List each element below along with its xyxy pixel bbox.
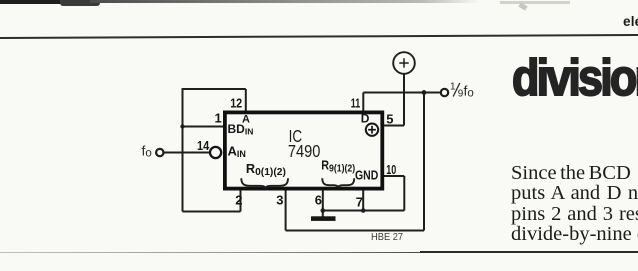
wire: f0 input line [164, 152, 210, 154]
svg-text:14: 14 [197, 138, 210, 153]
wire: right feedback vertical [423, 93, 425, 231]
bottom rule [0, 252, 638, 254]
wire: pin 3 stub [285, 190, 287, 231]
net label 1/9 f0 [450, 82, 474, 100]
svg-text:GND: GND [355, 167, 378, 182]
svg-text:3: 3 [276, 193, 283, 208]
junction node pin7 [361, 208, 366, 213]
svg-text:12: 12 [230, 95, 242, 110]
svg-text:2: 2 [235, 193, 242, 208]
wire: reset feedback bottom [286, 230, 424, 232]
wire: pin 7 stub [362, 190, 364, 211]
IC U1 7490 body [225, 112, 382, 188]
wire: QA feedback top rail [183, 88, 246, 90]
svg-text:fo: fo [464, 83, 474, 100]
elektor masthead fragment [623, 14, 638, 29]
svg-text:1: 1 [450, 82, 456, 93]
junction node output/reset [422, 90, 427, 95]
wire: pin 11 stub [362, 93, 364, 113]
svg-text:7: 7 [356, 195, 363, 210]
terminal 1/9 f0 output [441, 89, 448, 96]
body text column [511, 163, 638, 244]
wire: output rail [363, 92, 440, 94]
junction node pin1 [180, 124, 184, 128]
svg-text:5: 5 [386, 112, 393, 127]
junction node pin6 [321, 208, 326, 213]
wire: pin 10 vertical [403, 176, 405, 211]
svg-text:11: 11 [351, 95, 361, 110]
headline: division [512, 48, 638, 107]
wire: pin 2 loop bottom [183, 211, 241, 213]
wire: pin 12 stub [245, 89, 247, 112]
scan top edge bar [0, 0, 92, 4]
svg-text:HBE 27: HBE 27 [371, 232, 403, 243]
header rule [0, 34, 638, 39]
wire: pin 1 stub [183, 126, 224, 128]
wire: supply vertical [403, 74, 405, 126]
brace R9 pins 6-7 [322, 178, 354, 188]
wire: left feedback vertical [182, 88, 184, 211]
D output circle-plus U1 [366, 124, 378, 136]
wire: ground drop [322, 211, 324, 217]
brace R0 pins 2-3 [241, 178, 288, 188]
wire: pin 5 stub [384, 125, 404, 127]
svg-text:10: 10 [386, 162, 396, 177]
svg-text:D: D [361, 112, 370, 126]
svg-text:fo: fo [142, 143, 152, 160]
wire: ground rail pins 6-7 [323, 210, 405, 212]
wire: pin 10 stub [384, 175, 404, 177]
input bubble pin 14 [210, 147, 221, 158]
label IC 7490 [288, 126, 321, 161]
supply symbol + [393, 52, 415, 74]
wire: pin 2 stub [240, 190, 242, 212]
wire: pin 6 stub [322, 190, 324, 211]
ground symbol [311, 216, 336, 221]
terminal f0 input [156, 149, 163, 156]
svg-text:7490: 7490 [288, 141, 321, 161]
svg-text:6: 6 [315, 193, 322, 208]
svg-text:1: 1 [215, 111, 222, 126]
